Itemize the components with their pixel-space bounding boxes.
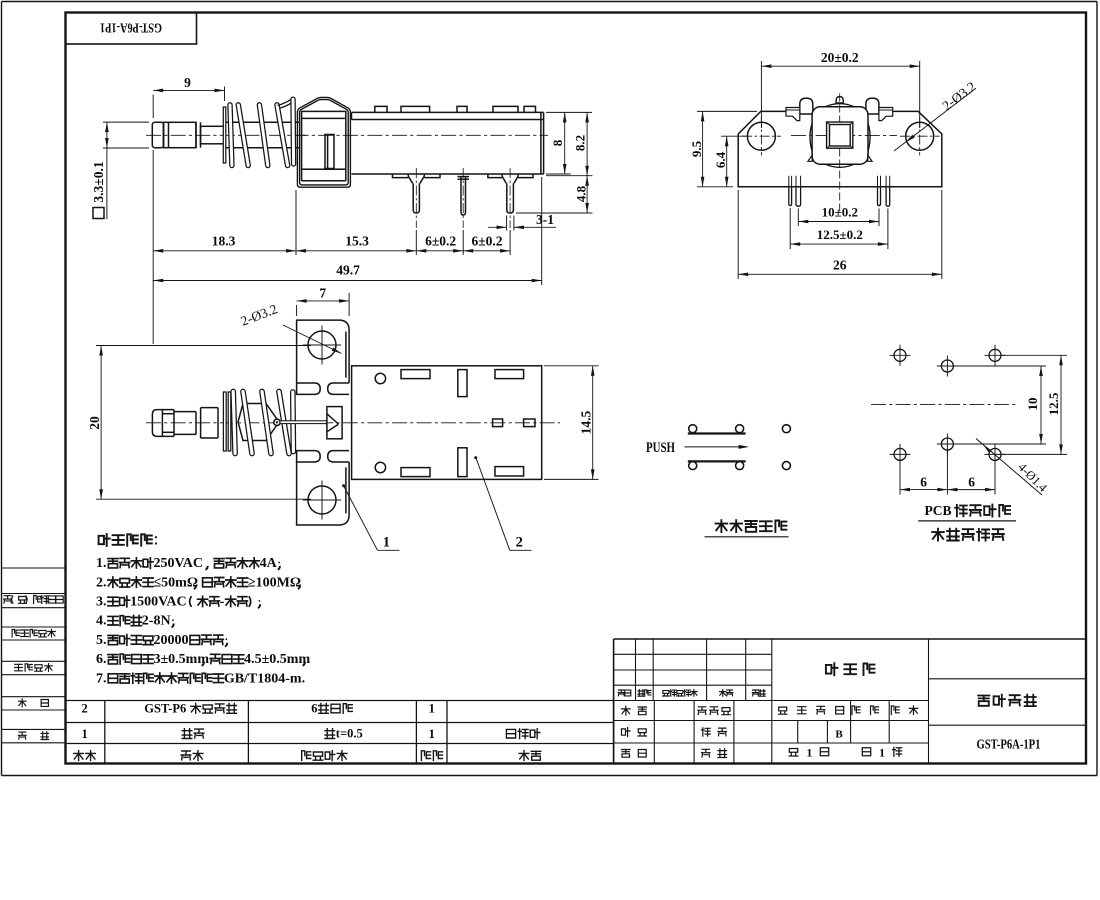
svg-text:6: 6 — [920, 475, 927, 490]
svg-text:8.2: 8.2 — [573, 135, 588, 151]
svg-text:4A: 4A — [260, 556, 278, 571]
svg-text:1: 1 — [806, 746, 812, 760]
svg-text:6.: 6. — [96, 652, 107, 667]
svg-text:5.: 5. — [96, 633, 107, 648]
svg-text:20: 20 — [87, 416, 102, 430]
svg-text:4.8: 4.8 — [574, 185, 589, 202]
svg-text:2.: 2. — [96, 575, 107, 590]
svg-text:2: 2 — [516, 535, 523, 551]
svg-text:14.5: 14.5 — [579, 411, 594, 435]
svg-text:6±0.2: 6±0.2 — [471, 233, 502, 248]
svg-text:≥100MΩ: ≥100MΩ — [248, 575, 301, 590]
svg-text:12.5: 12.5 — [1046, 392, 1061, 415]
svg-text:3-1: 3-1 — [536, 212, 554, 227]
svg-text:7.: 7. — [96, 671, 107, 686]
svg-text:1: 1 — [429, 702, 435, 716]
svg-text:≤50mΩ: ≤50mΩ — [154, 575, 199, 590]
svg-text:6±0.2: 6±0.2 — [425, 233, 456, 248]
svg-text:GB/T1804-m.: GB/T1804-m. — [224, 671, 305, 686]
svg-text:4.: 4. — [96, 614, 107, 629]
svg-text:t=0.5: t=0.5 — [336, 727, 363, 741]
svg-text:9.5: 9.5 — [689, 140, 704, 157]
svg-text:3.: 3. — [96, 595, 107, 610]
svg-text:GST-P6A-1P1: GST-P6A-1P1 — [100, 21, 162, 36]
svg-text:2: 2 — [81, 702, 87, 716]
svg-text:B: B — [835, 729, 843, 741]
svg-text:15.3: 15.3 — [345, 233, 369, 248]
svg-text:1: 1 — [879, 746, 885, 760]
svg-text:20±0.2: 20±0.2 — [821, 50, 859, 65]
svg-text:6.4: 6.4 — [713, 151, 728, 168]
svg-text:3.3±0.1: 3.3±0.1 — [91, 161, 106, 202]
svg-text:12.5±0.2: 12.5±0.2 — [817, 227, 863, 242]
svg-text:1: 1 — [383, 535, 390, 551]
svg-text:4.5±0.5mm: 4.5±0.5mm — [244, 652, 310, 667]
svg-text:GST-P6A-1P1: GST-P6A-1P1 — [977, 736, 1041, 751]
svg-text:18.3: 18.3 — [212, 233, 236, 248]
svg-text:6: 6 — [311, 701, 317, 715]
svg-text:6: 6 — [968, 475, 975, 490]
svg-text:1500VAC: 1500VAC — [130, 595, 187, 610]
svg-text:-: - — [220, 595, 225, 610]
svg-text:PCB: PCB — [925, 503, 952, 518]
svg-text:49.7: 49.7 — [336, 262, 360, 277]
svg-text:PUSH: PUSH — [646, 440, 675, 456]
svg-text:GST-P6: GST-P6 — [144, 701, 186, 715]
svg-text:1.: 1. — [96, 556, 107, 571]
svg-text:20000: 20000 — [154, 633, 189, 648]
svg-text:3±0.5mm: 3±0.5mm — [154, 652, 210, 667]
svg-text:1: 1 — [81, 727, 87, 741]
svg-text:9: 9 — [184, 75, 191, 90]
svg-text:7: 7 — [319, 285, 326, 300]
svg-text:8: 8 — [550, 139, 565, 146]
svg-text:10±0.2: 10±0.2 — [822, 205, 858, 220]
svg-text:10: 10 — [1025, 398, 1040, 411]
svg-text:26: 26 — [833, 258, 847, 273]
svg-text:1: 1 — [429, 727, 435, 741]
svg-text:2-8N: 2-8N — [142, 614, 171, 629]
svg-text:250VAC: 250VAC — [154, 556, 204, 571]
